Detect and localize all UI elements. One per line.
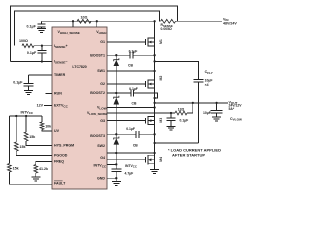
- svg-text:15k: 15k: [20, 145, 26, 149]
- wire M2 source to VLOW node: [154, 88, 156, 117]
- junction BOOST2 on diode column: [115, 92, 117, 94]
- capacitor CB boost1 0.1uF: [129, 52, 131, 59]
- wire G2 to M2 gate: [107, 83, 146, 85]
- wire G4 to M4 gate: [107, 159, 146, 161]
- svg-text:CB: CB: [133, 143, 138, 147]
- junction INTVCC on diode column: [115, 163, 117, 165]
- wire GND pin to ground: [107, 177, 116, 179]
- junction CB3 at SW2 column: [153, 133, 155, 135]
- svg-text:×4: ×4: [205, 83, 209, 87]
- wire EXTVCC 12V input: [44, 105, 52, 107]
- svg-text:4.7µF: 4.7µF: [125, 172, 134, 176]
- svg-text:CB: CB: [132, 102, 137, 106]
- wire INTVCC pin to bypass: [107, 163, 116, 165]
- resistor 15k FAULT pull-up: [8, 164, 12, 173]
- junction BOOST3 on diode column: [115, 133, 117, 135]
- diode D2 schottky BOOST3 to BOOST2: [114, 96, 119, 99]
- wire CB2 to VLOW node jog: [134, 93, 158, 98]
- sense resistor RSENSE 0.005 Ohm: [161, 19, 176, 23]
- svg-text:M1: M1: [159, 39, 163, 44]
- svg-text:M3: M3: [159, 118, 163, 123]
- ground M4 source: [150, 169, 159, 171]
- wire BOOST1 pin to cap: [107, 54, 130, 56]
- wire SW2 pin to M3/M4 node and CFLY bottom: [107, 152, 155, 154]
- svg-text:100Ω: 100Ω: [19, 39, 28, 43]
- svg-text:0.1µF: 0.1µF: [13, 81, 23, 85]
- svg-text:LTC7820: LTC7820: [72, 65, 86, 69]
- wire TIMER pin: [29, 74, 53, 76]
- svg-text:10Ω: 10Ω: [81, 16, 88, 20]
- svg-text:G4: G4: [100, 156, 105, 160]
- wire UV branch: [41, 116, 43, 122]
- wire VLOW pin to M2/M3 node: [107, 107, 155, 109]
- ground TIMER cap: [24, 90, 33, 92]
- svg-text:G3: G3: [100, 119, 105, 123]
- wire M1 source to SW1 column: [154, 46, 156, 80]
- junction ISENSE+ filter cap top: [41, 45, 43, 47]
- capacitor CB boost3 0.1uF: [135, 131, 137, 138]
- junction CB2 at VLOW column: [153, 97, 155, 99]
- svg-text:G2: G2: [100, 82, 105, 86]
- svg-text:0.1µF: 0.1µF: [129, 49, 138, 53]
- capacitor 0.1uF VLOW_SENSE filter: [170, 113, 172, 118]
- wire BOOST3 pin to cap: [107, 133, 136, 135]
- junction INTVCC rail to HYS branch: [25, 115, 27, 117]
- svg-text:10k: 10k: [45, 125, 51, 129]
- wire CB1 to SW1 node: [133, 54, 155, 56]
- svg-text:41.2k: 41.2k: [39, 167, 48, 171]
- svg-text:SW1: SW1: [97, 69, 105, 73]
- wire ISENSE+ to pin: [34, 45, 52, 47]
- junction VHIGH node: [96, 20, 98, 22]
- junction VHIGH_SENSE node: [72, 20, 74, 22]
- wire RSENSE to VIN terminal: [176, 20, 223, 22]
- svg-text:UV: UV: [54, 129, 60, 133]
- svg-text:HYS_PRGM: HYS_PRGM: [54, 144, 74, 148]
- capacitor 0.1uF VHIGH_SENSE bypass: [41, 21, 43, 24]
- svg-text:VHIGH: VHIGH: [96, 30, 107, 35]
- wire FREQ pin: [36, 162, 52, 165]
- svg-text:0.1µF: 0.1µF: [126, 127, 135, 131]
- junction SW1 pin wire: [153, 70, 155, 72]
- resistor 100 Ohm ISENSE+ filter: [22, 44, 34, 48]
- svg-text:M4: M4: [159, 157, 163, 162]
- wire ISENSE- to pin: [11, 61, 52, 63]
- capacitor CVLOW 10uF output: [216, 103, 218, 111]
- resistor 41.2k FREQ: [34, 165, 38, 174]
- svg-text:G1: G1: [100, 40, 105, 44]
- wire SW1 to CFLY top: [155, 61, 199, 79]
- junction ISENSE- filter cap bottom: [41, 60, 43, 62]
- wire bootstrap diode column: [115, 55, 117, 164]
- wire INTVCC distribution rail: [9, 115, 42, 117]
- ground IC GND / INTVCC cap: [115, 178, 117, 181]
- wire HYS resistor to pin: [26, 141, 52, 146]
- transistor M1 NFET: [145, 39, 147, 45]
- wire PGOOD resistor to pin: [16, 151, 52, 156]
- ground VLOW_SENSE cap: [167, 125, 176, 127]
- junction VOUT rail tap: [153, 102, 155, 104]
- resistor 10 Ohm VHIGH_SENSE filter: [77, 19, 91, 23]
- wire 13 Ohm to VOUT rail: [187, 103, 193, 113]
- svg-text:VLOW_SENSE: VLOW_SENSE: [87, 111, 107, 116]
- svg-text:BOOST2: BOOST2: [90, 91, 105, 95]
- wire HYS_PRGM branch: [25, 116, 27, 132]
- junction 13 Ohm at VOUT rail: [192, 102, 194, 104]
- wire SW1 pin to M1/M2 node: [107, 70, 155, 72]
- capacitor 0.1uF ISENSE filter: [41, 46, 43, 51]
- ground FREQ resistor: [31, 176, 40, 178]
- capacitor 0.1uF TIMER: [28, 75, 30, 83]
- svg-text:0.1µF: 0.1µF: [180, 118, 189, 122]
- svg-text:0.1µF: 0.1µF: [27, 24, 37, 28]
- wire UV resistor to pin: [42, 130, 52, 132]
- svg-text:SW2: SW2: [97, 144, 105, 148]
- svg-text:ISENSE–: ISENSE–: [54, 60, 68, 65]
- svg-text:M2: M2: [159, 76, 163, 81]
- junction VLOW pin wire: [153, 106, 155, 108]
- junction CVLOW at VOUT rail: [215, 102, 217, 104]
- wire G1 to M1 gate: [107, 41, 146, 43]
- svg-text:CB: CB: [128, 63, 133, 67]
- junction GND: [115, 177, 117, 179]
- svg-text:VHIGH_SENSE: VHIGH_SENSE: [58, 30, 80, 35]
- wire PGOOD branch: [15, 116, 17, 142]
- IC U1 LTC7820 body: [52, 27, 107, 189]
- wire BOOST2 pin to cap: [107, 92, 131, 94]
- transistor M3 NFET: [145, 118, 147, 124]
- wire VIN to M1 drain: [154, 21, 156, 38]
- wire VLOW_SENSE pin to filter: [107, 112, 175, 114]
- transistor M4 NFET: [145, 157, 147, 163]
- svg-text:10µF: 10µF: [203, 111, 211, 115]
- ground output cap: [212, 116, 221, 118]
- svg-text:12V: 12V: [37, 104, 44, 108]
- svg-text:VLOW: VLOW: [97, 106, 107, 111]
- wire ISENSE- outer rail: [11, 6, 178, 62]
- wire M4 source to ground: [154, 164, 156, 170]
- wire VOUT rail: [155, 102, 228, 104]
- wire FAULT branch vertical: [8, 116, 10, 164]
- svg-text:5A*: 5A*: [229, 107, 235, 111]
- ground VHIGH_SENSE cap: [37, 28, 46, 30]
- svg-text:15k: 15k: [29, 135, 35, 139]
- svg-text:15k: 15k: [13, 167, 19, 171]
- wire M3 source to SW2 column: [154, 125, 156, 156]
- resistor 15k HYS_PRGM: [24, 132, 28, 141]
- svg-text:AFTER STARTUP: AFTER STARTUP: [172, 152, 205, 157]
- svg-text:13Ω: 13Ω: [178, 107, 185, 111]
- resistor 13 Ohm VLOW_SENSE: [175, 111, 187, 115]
- junction BOOST1 on diode column: [115, 54, 117, 56]
- svg-text:PGOOD: PGOOD: [54, 154, 68, 158]
- svg-text:0.005Ω: 0.005Ω: [161, 27, 172, 31]
- wire FREQ resistor to ground: [35, 173, 37, 177]
- wire top horizontal VHIGH/VIN run: [42, 20, 155, 22]
- diode D1 schottky BOOST2 to BOOST1: [114, 58, 119, 61]
- resistor 15k PGOOD pull-up: [14, 142, 18, 151]
- svg-text:CVLOW: CVLOW: [230, 117, 242, 122]
- transistor M2 NFET: [145, 81, 147, 87]
- svg-text:BOOST3: BOOST3: [90, 134, 105, 138]
- wire ISENSE+ inner rail: [15, 11, 160, 46]
- svg-text:FREQ: FREQ: [54, 160, 64, 164]
- svg-text:48V/24V: 48V/24V: [223, 22, 237, 26]
- junction M1 drain / VHIGH rail tap: [153, 20, 155, 22]
- capacitor CFLY 10uF x4: [193, 79, 203, 81]
- svg-text:RUN: RUN: [54, 92, 62, 96]
- wire VHIGH_SENSE pin to top node: [72, 21, 74, 27]
- svg-text:0.1µF: 0.1µF: [129, 87, 138, 91]
- wire FAULT resistor to pin: [9, 172, 52, 184]
- junction CB1 at SW1 column: [153, 54, 155, 56]
- diode D3 schottky INTVCC to BOOST3: [114, 137, 119, 140]
- resistor 10k UV: [40, 122, 44, 130]
- capacitor 4.7uF INTVCC bypass: [115, 164, 117, 168]
- wire RUN stub: [46, 93, 53, 95]
- svg-text:FAULT: FAULT: [54, 182, 66, 186]
- junction SW2 pin wire: [153, 152, 155, 154]
- svg-text:0.1µF: 0.1µF: [27, 51, 37, 55]
- junction CFLY top tap: [153, 60, 155, 62]
- svg-text:GND: GND: [97, 176, 105, 180]
- svg-text:BOOST1: BOOST1: [90, 53, 105, 57]
- junction VLOW_SENSE filter cap: [170, 112, 172, 114]
- svg-text:TIMER: TIMER: [54, 73, 66, 77]
- junction INTVCC rail to PGOOD branch: [15, 115, 17, 117]
- wire CB3 to SW2 node: [139, 133, 155, 135]
- wire G3 to M3 gate: [107, 120, 146, 122]
- capacitor CB boost2 0.1uF: [130, 90, 132, 97]
- wire VHIGH pin to top node: [96, 21, 98, 27]
